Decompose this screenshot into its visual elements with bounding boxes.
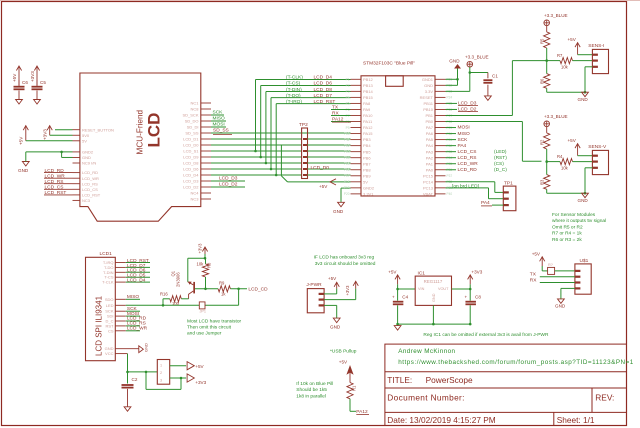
power +3.3_BLUE SENS-I xyxy=(544,13,568,25)
power +5V arrow (C6) xyxy=(12,66,22,86)
svg-text:3: 3 xyxy=(160,379,162,383)
power +3.3_BLUE SENS-V xyxy=(544,114,568,126)
svg-text:Andrew McKinnon: Andrew McKinnon xyxy=(398,348,455,355)
label LCD_D0 TP2 xyxy=(311,165,330,171)
svg-text:Should be 1k5: Should be 1k5 xyxy=(296,387,327,393)
svg-text:LED: LED xyxy=(106,303,114,308)
jumper SJ1 xyxy=(157,360,169,385)
svg-text:GND2: GND2 xyxy=(82,150,94,155)
svg-text:SD_DO: SD_DO xyxy=(185,119,199,124)
ground SENS-I xyxy=(578,92,589,102)
svg-text:LCD_CD: LCD_CD xyxy=(248,287,268,293)
wire +5V to R10 xyxy=(542,270,547,272)
label MISO xyxy=(211,116,226,122)
svg-text:P11: P11 xyxy=(344,138,350,142)
note reg omit xyxy=(423,332,549,338)
module LCD1 SPI outline xyxy=(86,251,116,361)
title rev xyxy=(595,393,614,403)
wire J-PWR gnd xyxy=(324,305,337,318)
svg-text:PB8: PB8 xyxy=(363,167,371,172)
svg-text:MISO: MISO xyxy=(213,116,226,122)
wire LCD_D1 to TP2 xyxy=(211,138,302,140)
svg-text:3.3V: 3.3V xyxy=(425,89,434,94)
svg-text:LCD_RS: LCD_RS xyxy=(82,181,98,186)
power +5V J-PWR xyxy=(328,276,339,289)
svg-text:R3: R3 xyxy=(540,179,545,185)
svg-text:LCD: LCD xyxy=(145,113,164,148)
svg-text:GND: GND xyxy=(424,83,433,88)
svg-text:P12: P12 xyxy=(344,144,350,148)
svg-text:PB9: PB9 xyxy=(363,173,371,178)
wire SD_SS to MCU xyxy=(211,128,351,135)
svg-text:P14: P14 xyxy=(344,156,350,160)
svg-text:MCU-Friend: MCU-Friend xyxy=(135,109,144,154)
svg-text:10k: 10k xyxy=(197,262,205,267)
svg-text:R8: R8 xyxy=(207,262,212,268)
svg-text:+5V: +5V xyxy=(328,276,337,281)
svg-text:+5V: +5V xyxy=(319,184,328,189)
svg-text:(T-CS): (T-CS) xyxy=(286,81,301,87)
wire +5V to IC1 xyxy=(396,284,415,290)
svg-text:C4: C4 xyxy=(402,294,408,299)
svg-text:TP1: TP1 xyxy=(504,180,513,186)
power +5V IC1 xyxy=(388,269,400,284)
svg-text:PA4: PA4 xyxy=(481,200,490,206)
connector SENS-V xyxy=(588,144,608,175)
svg-text:LCD_CS: LCD_CS xyxy=(45,185,64,191)
svg-text:P2: P2 xyxy=(346,84,350,88)
svg-text:SDO: SDO xyxy=(105,297,114,302)
MCU left pins xyxy=(344,77,375,197)
svg-text:LCD_D3: LCD_D3 xyxy=(219,176,238,182)
svg-text:R9: R9 xyxy=(219,281,225,286)
resistor R4 xyxy=(547,154,593,171)
label LCD_D3 MCU xyxy=(446,101,479,107)
svg-text:Date: 13/02/2019 4:15:27 PM: Date: 13/02/2019 4:15:27 PM xyxy=(387,415,495,425)
LCD control net labels xyxy=(44,168,73,196)
svg-text:VBAT: VBAT xyxy=(423,191,434,196)
wire +5V MCU xyxy=(281,145,350,189)
label LCD_RS LCD1 xyxy=(126,321,146,327)
svg-text:P4: P4 xyxy=(346,96,350,100)
svg-text:NC3: NC3 xyxy=(82,198,91,203)
ground C2 xyxy=(124,407,131,412)
label SCK LCD1 xyxy=(126,306,140,312)
svg-text:PA6: PA6 xyxy=(426,131,434,136)
svg-text:1k8 in parallel: 1k8 in parallel xyxy=(296,393,326,399)
svg-text:+3V3: +3V3 xyxy=(30,71,35,82)
svg-text:+3.3_BLUE: +3.3_BLUE xyxy=(544,114,568,119)
label LCD_D3 wire xyxy=(211,176,245,182)
svg-text:R?: R? xyxy=(548,263,553,267)
wire bundle LCD to TP2 xyxy=(211,151,302,175)
MCU right net labels xyxy=(446,125,508,173)
svg-text:P9: P9 xyxy=(346,126,350,130)
ground C5 xyxy=(34,100,41,105)
ground C6 xyxy=(16,100,23,105)
svg-text:PA0: PA0 xyxy=(426,167,434,172)
TP2 pin bars xyxy=(303,138,308,176)
LCD left pins upper xyxy=(73,127,115,165)
capacitor C2 xyxy=(122,372,138,407)
wire VCC down xyxy=(126,354,157,374)
svg-text:PowerScope: PowerScope xyxy=(426,375,473,385)
svg-text:LCD_RD: LCD_RD xyxy=(458,167,478,173)
svg-text:P16: P16 xyxy=(344,168,350,172)
label LCD_WR LCD1 xyxy=(126,326,148,332)
svg-text:TITLE:: TITLE: xyxy=(387,375,412,385)
svg-text:R7 or R4 = 1k: R7 or R4 = 1k xyxy=(552,231,582,237)
note pullup value xyxy=(296,381,333,399)
capacitor C6 xyxy=(14,80,29,100)
wire +5V to SENS-V xyxy=(578,155,593,157)
svg-text:TX: TX xyxy=(530,272,537,278)
svg-text:RX: RX xyxy=(332,111,339,117)
svg-text:PA2: PA2 xyxy=(426,155,434,160)
svg-text:R5: R5 xyxy=(540,38,545,44)
svg-text:Sheet: 1/1: Sheet: 1/1 xyxy=(557,415,595,425)
svg-text:LCD_D2: LCD_D2 xyxy=(183,185,199,190)
svg-text:LCD1: LCD1 xyxy=(100,251,113,257)
svg-text:+5V: +5V xyxy=(568,138,577,143)
svg-text:LCD_RD: LCD_RD xyxy=(45,168,65,174)
power +5V SENS-V xyxy=(568,138,581,156)
svg-text:J-PWR: J-PWR xyxy=(306,282,322,288)
svg-text:GND: GND xyxy=(330,324,341,329)
svg-text:SCK: SCK xyxy=(458,137,469,143)
MCU right pins xyxy=(420,77,453,197)
wire +5V to 5V pin xyxy=(26,140,73,142)
wire gnd rail SENS-V xyxy=(547,168,593,195)
svg-text:PB15: PB15 xyxy=(363,95,374,100)
wire PC13 to TP1 xyxy=(446,188,504,199)
power +3.3_BLUE top xyxy=(465,55,489,68)
label PA4 TP1 xyxy=(481,200,503,206)
svg-text:P24: P24 xyxy=(447,96,453,100)
svg-text:and use Jumper: and use Jumper xyxy=(187,331,222,337)
svg-text:+3.3_BLUE: +3.3_BLUE xyxy=(465,55,489,60)
svg-text:+5V: +5V xyxy=(19,136,24,145)
wire R10 to U$1 xyxy=(555,270,575,272)
svg-text:IC1: IC1 xyxy=(418,270,426,276)
wire J-PWR +5V xyxy=(324,289,337,294)
wire PB0 to SENS-V divider xyxy=(446,122,542,162)
capacitor C8 xyxy=(465,289,482,324)
svg-text:LCD_WR: LCD_WR xyxy=(458,161,479,167)
svg-text:+3V3: +3V3 xyxy=(345,285,350,296)
wire IC1 out xyxy=(452,284,472,290)
svg-text:If 10k on Blue Pill: If 10k on Blue Pill xyxy=(296,381,333,387)
svg-text:https://www.thebackshed.com/fo: https://www.thebackshed.com/forum/forum_… xyxy=(398,359,633,366)
ground J-PWR xyxy=(330,318,341,329)
resistor R5 xyxy=(540,26,550,62)
svg-text:+5V: +5V xyxy=(12,73,17,82)
svg-text:Most LCD have transistor: Most LCD have transistor xyxy=(187,319,242,325)
svg-text:P10: P10 xyxy=(344,132,350,136)
wire MCU gnd top xyxy=(446,69,459,86)
svg-text:MISO: MISO xyxy=(458,131,471,137)
svg-text:PB4: PB4 xyxy=(363,143,371,148)
note usb pullup xyxy=(330,348,357,354)
svg-text:GND: GND xyxy=(449,59,460,64)
title url xyxy=(398,359,633,366)
connector TP1 xyxy=(503,180,516,210)
svg-text:PB3: PB3 xyxy=(363,137,371,142)
svg-text:+: + xyxy=(392,294,395,299)
svg-text:PB10: PB10 xyxy=(423,107,434,112)
note transistor xyxy=(187,319,242,337)
svg-text:*USB Pullup: *USB Pullup xyxy=(330,348,357,354)
note sensor modules xyxy=(552,212,606,243)
svg-text:C5: C5 xyxy=(40,80,46,85)
ground LCD xyxy=(18,162,29,174)
svg-text:LCD_D6: LCD_D6 xyxy=(314,81,333,87)
resistor R8 xyxy=(197,258,212,290)
svg-text:IF LCD has onboard 3v3 reg: IF LCD has onboard 3v3 reg xyxy=(314,255,375,261)
svg-text:GND: GND xyxy=(578,198,589,203)
svg-text:GND1: GND1 xyxy=(422,77,434,82)
svg-text:SD_SCK: SD_SCK xyxy=(182,113,198,118)
svg-text:(RST): (RST) xyxy=(494,155,507,161)
svg-text:SD_SS: SD_SS xyxy=(213,128,229,134)
svg-text:+5V: +5V xyxy=(532,252,541,257)
svg-text:PB7: PB7 xyxy=(363,161,371,166)
svg-text:PA4: PA4 xyxy=(426,143,434,148)
connector SENS-I xyxy=(588,43,608,74)
svg-text:R4: R4 xyxy=(557,154,563,159)
svg-text:U$1: U$1 xyxy=(580,258,589,264)
svg-text:+5V: +5V xyxy=(388,269,397,274)
svg-text:PB1: PB1 xyxy=(425,113,433,118)
resistor R9 xyxy=(195,281,247,297)
svg-text:P5: P5 xyxy=(346,102,350,106)
wire SJ1 pin1 +5V xyxy=(170,362,205,370)
svg-text:+: + xyxy=(465,294,468,299)
power +5V pullup xyxy=(339,360,354,383)
svg-text:5V0: 5V0 xyxy=(82,133,90,138)
svg-text:PB14: PB14 xyxy=(363,89,374,94)
wire 3V3 blue to MCU xyxy=(446,67,488,91)
svg-text:R6 or R3 = 2k: R6 or R3 = 2k xyxy=(552,237,582,243)
power +5V SENS-I xyxy=(568,37,581,55)
svg-text:(LED): (LED) xyxy=(494,149,507,155)
svg-text:RESET_BUTTON: RESET_BUTTON xyxy=(82,127,114,132)
wire U$1 gnd xyxy=(561,288,575,299)
svg-text:GND: GND xyxy=(333,209,344,214)
svg-text:R16: R16 xyxy=(160,291,168,296)
label RX U$1 xyxy=(530,278,575,284)
label LCD_D2 wire xyxy=(211,182,245,188)
svg-text:3v3 circuit should be omitted: 3v3 circuit should be omitted xyxy=(315,261,376,267)
svg-text:NC3: NC3 xyxy=(190,197,199,202)
svg-text:SCK: SCK xyxy=(213,110,224,116)
svg-text:REV:: REV: xyxy=(595,393,614,403)
svg-text:P15: P15 xyxy=(344,162,350,166)
svg-text:PB13: PB13 xyxy=(363,83,374,88)
wire +5V to SENS-I xyxy=(578,54,593,56)
svg-text:R6: R6 xyxy=(540,78,545,84)
ground IC1 xyxy=(394,326,401,331)
svg-text:LCD SPI ILI9341: LCD SPI ILI9341 xyxy=(95,295,104,356)
svg-text:1: 1 xyxy=(160,364,162,368)
svg-text:NC9 I/N: NC9 I/N xyxy=(82,161,96,166)
note lcd onboard reg xyxy=(314,255,376,267)
wires TP2 to MCU xyxy=(308,139,351,175)
svg-text:LCD_RS: LCD_RS xyxy=(458,155,477,161)
svg-text:PC15: PC15 xyxy=(423,173,434,178)
svg-text:PA10: PA10 xyxy=(363,113,373,118)
svg-text:5V: 5V xyxy=(82,138,87,143)
connector J-PWR xyxy=(306,282,324,313)
svg-text:LCD_RD: LCD_RD xyxy=(82,170,98,175)
svg-text:C8: C8 xyxy=(475,294,481,299)
wire SJ1 pin3 +3V3 xyxy=(170,374,207,385)
svg-text:2: 2 xyxy=(160,371,162,375)
svg-text:LCD_D8: LCD_D8 xyxy=(183,161,199,166)
svg-text:PA11: PA11 xyxy=(363,119,373,124)
label PA12 xyxy=(331,117,351,123)
module LCD MCU-Friend outline xyxy=(80,73,201,221)
ground U$1 xyxy=(555,299,566,308)
ground C1 xyxy=(485,96,492,101)
svg-text:LCD_D7: LCD_D7 xyxy=(314,93,333,99)
svg-text:LCD_D4: LCD_D4 xyxy=(183,173,199,178)
svg-text:SD_DI: SD_DI xyxy=(187,125,199,130)
svg-text:GND: GND xyxy=(555,303,566,308)
svg-text:LCD_D4: LCD_D4 xyxy=(314,75,333,81)
svg-text:VIN: VIN xyxy=(418,287,425,291)
svg-text:2N3906: 2N3906 xyxy=(176,272,181,287)
wire +3V3 to 5V0 pin xyxy=(50,134,73,136)
wire PB1 to SENS-I divider xyxy=(446,61,549,116)
svg-text:MOSI: MOSI xyxy=(213,122,225,128)
svg-text:C6: C6 xyxy=(22,80,28,85)
svg-text:(T-DIN): (T-DIN) xyxy=(286,87,302,93)
svg-text:LCD_WR: LCD_WR xyxy=(127,326,148,332)
label LCD_RD LCD1 xyxy=(126,316,147,322)
svg-text:LCD_D6: LCD_D6 xyxy=(183,167,199,172)
jumper R10 xyxy=(548,263,555,274)
wire SJ1 loop xyxy=(146,372,181,390)
svg-text:NC4: NC4 xyxy=(190,191,199,196)
svg-text:LCD_D1: LCD_D1 xyxy=(183,137,199,142)
power +5V U$1 xyxy=(532,252,545,271)
svg-text:+3V3: +3V3 xyxy=(198,243,203,254)
svg-text:PC13: PC13 xyxy=(423,185,434,190)
svg-text:PA8: PA8 xyxy=(363,101,371,106)
svg-text:+3V3: +3V3 xyxy=(471,269,482,274)
svg-text:5V: 5V xyxy=(363,179,368,184)
svg-text:LCD_D0: LCD_D0 xyxy=(183,143,199,148)
label MOSI xyxy=(211,122,226,128)
svg-text:LCD_D9: LCD_D9 xyxy=(183,155,199,160)
svg-text:For Sensor Modules: For Sensor Modules xyxy=(552,212,596,218)
svg-text:T-CLK: T-CLK xyxy=(102,280,114,285)
svg-text:where it outputs 5v signal: where it outputs 5v signal xyxy=(552,218,606,224)
svg-text:GND: GND xyxy=(18,168,29,173)
svg-text:LCD_WR: LCD_WR xyxy=(82,176,99,181)
capacitor C1 xyxy=(483,73,498,96)
power +3V3 Q1 xyxy=(198,243,208,254)
svg-text:+5V: +5V xyxy=(339,360,348,365)
svg-text:TX: TX xyxy=(332,105,339,111)
svg-text:P18: P18 xyxy=(344,180,350,184)
svg-text:(CS): (CS) xyxy=(494,161,504,167)
svg-text:(D_C): (D_C) xyxy=(494,167,507,173)
connector TP2 xyxy=(299,122,308,179)
svg-text:GND: GND xyxy=(432,293,436,302)
capacitor C5 xyxy=(32,80,47,100)
svg-text:PB11: PB11 xyxy=(424,101,434,106)
resistor R6 xyxy=(540,61,550,93)
svg-text:(T-DO): (T-DO) xyxy=(286,93,301,99)
svg-text:+3.3_BLUE: +3.3_BLUE xyxy=(544,13,568,18)
wire GND to GND2 pin xyxy=(26,151,73,162)
LCD1 spi pins xyxy=(105,297,126,334)
svg-text:C2: C2 xyxy=(132,377,138,382)
power +5V arrow LCD xyxy=(19,126,29,145)
svg-text:+5V: +5V xyxy=(568,37,577,42)
svg-text:R7: R7 xyxy=(557,53,563,58)
label SCK xyxy=(211,110,224,116)
svg-text:VOUT: VOUT xyxy=(438,287,449,291)
svg-text:PB6: PB6 xyxy=(363,155,371,160)
ground MCU top xyxy=(449,59,461,69)
wire J-PWR +3V3 xyxy=(324,289,356,300)
ground MCU left xyxy=(333,202,344,214)
title author xyxy=(398,348,455,355)
svg-text:PC14: PC14 xyxy=(423,179,434,184)
wire GND to GND pin xyxy=(62,152,73,158)
svg-text:SENS-V: SENS-V xyxy=(588,144,607,150)
label MISO LCD1 xyxy=(126,294,140,300)
svg-text:STM32F103C "Blue Pill": STM32F103C "Blue Pill" xyxy=(363,61,415,67)
wire +3V3 rail Q1 xyxy=(188,254,207,282)
ground LCD1 xyxy=(139,343,149,353)
svg-text:PA3: PA3 xyxy=(426,149,434,154)
svg-text:PA4: PA4 xyxy=(458,143,467,149)
label TX xyxy=(331,105,351,111)
label on brd LED xyxy=(452,183,479,189)
svg-text:P19: P19 xyxy=(344,186,350,190)
svg-text:GND2: GND2 xyxy=(363,185,375,190)
svg-text:P20: P20 xyxy=(344,192,350,196)
label TX U$1 xyxy=(530,272,575,278)
svg-text:Then omit this circuit: Then omit this circuit xyxy=(187,325,232,331)
svg-text:P37: P37 xyxy=(447,174,453,178)
power +3V3 IC1 xyxy=(468,269,483,284)
ic U2 STM32 Blue Pill outline xyxy=(361,61,435,197)
LCD1 power pins xyxy=(105,346,139,356)
LCD1 touch pins xyxy=(102,258,150,285)
svg-text:VCC: VCC xyxy=(105,351,114,356)
svg-text:SENS-I: SENS-I xyxy=(588,43,604,49)
label LCD_D2 MCU xyxy=(446,107,479,113)
svg-text:+5V: +5V xyxy=(195,364,204,369)
wire MCU GND2 xyxy=(341,188,351,202)
resistor R1 xyxy=(347,383,357,412)
svg-text:C1: C1 xyxy=(492,74,498,79)
svg-text:PB0: PB0 xyxy=(425,119,433,124)
svg-text:NC1: NC1 xyxy=(190,101,199,106)
resistor R7 xyxy=(547,53,593,70)
label RX xyxy=(331,111,351,117)
svg-text:R2: R2 xyxy=(540,139,545,145)
svg-text:LCD_RST: LCD_RST xyxy=(314,99,336,105)
resistor R2 xyxy=(540,127,550,163)
LCD right pins xyxy=(182,101,211,202)
svg-text:GND: GND xyxy=(578,97,589,102)
